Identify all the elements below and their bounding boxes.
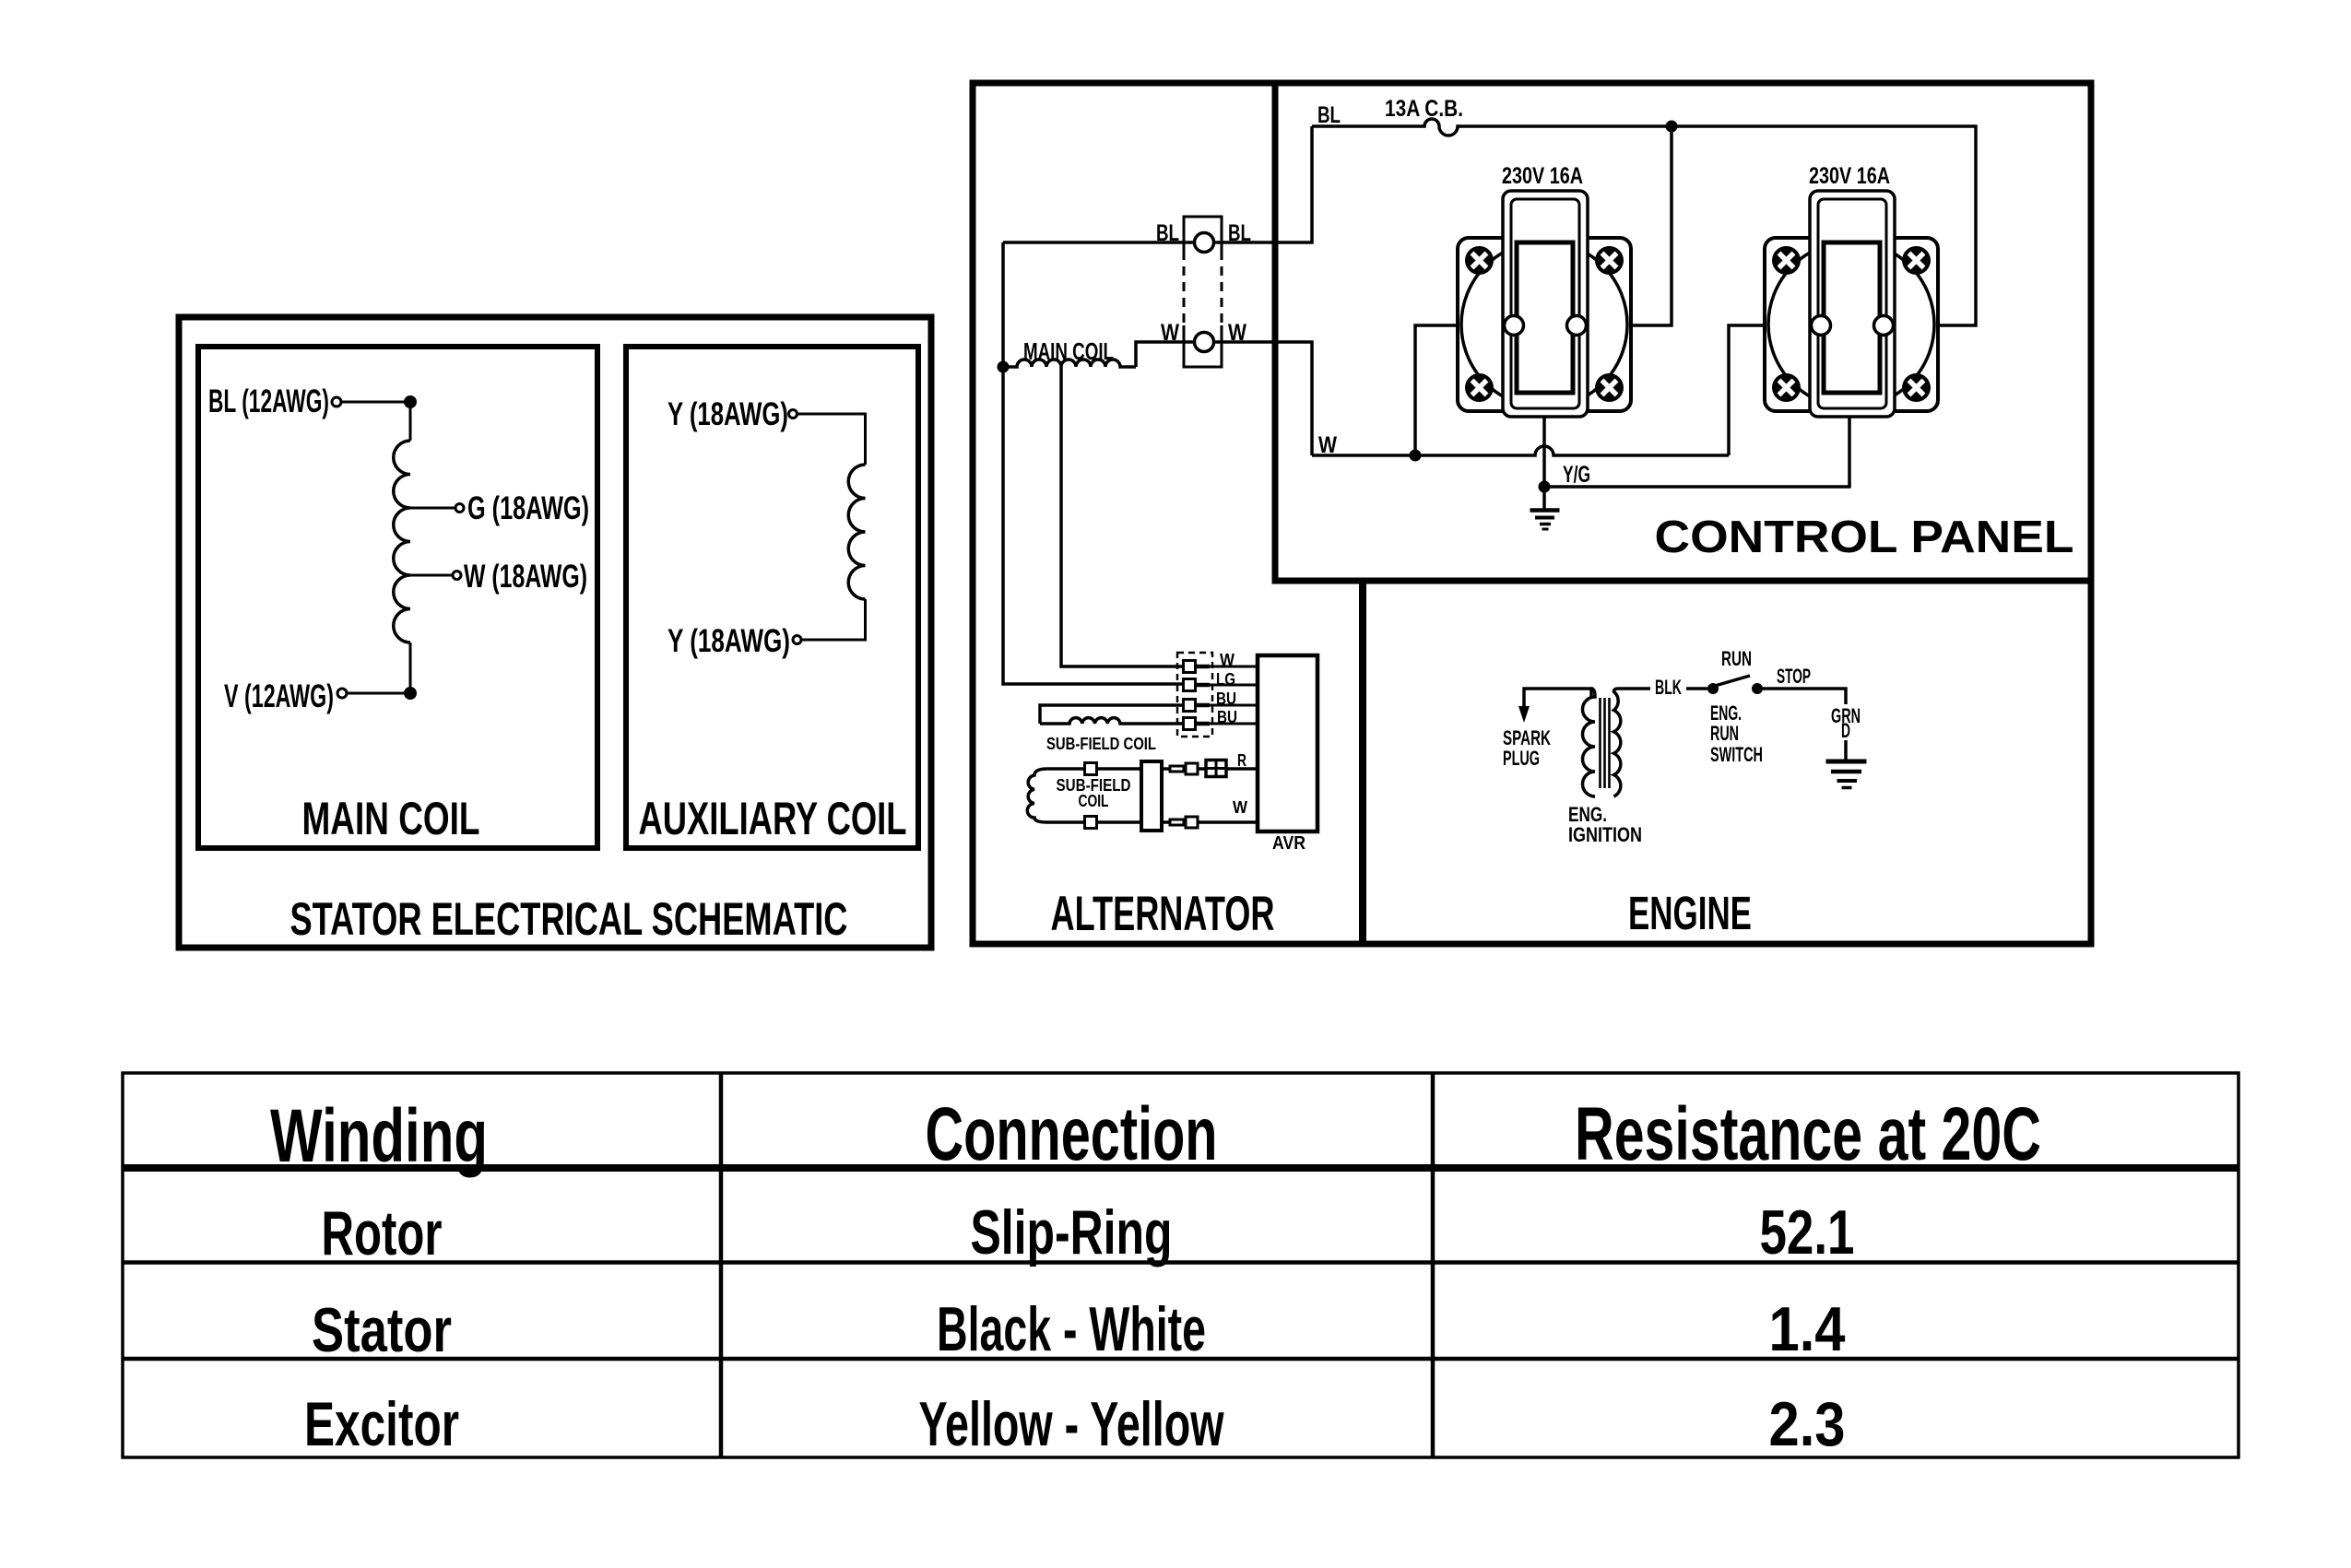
svg-text:Winding: Winding xyxy=(270,1094,488,1178)
wire main coil junction up to BL xyxy=(1001,242,1005,367)
wire junction down to coil xyxy=(409,402,412,441)
svg-text:COIL: COIL xyxy=(1079,792,1109,810)
svg-text:13A C.B.: 13A C.B. xyxy=(1385,96,1463,122)
svg-text:Resistance at 20C: Resistance at 20C xyxy=(1575,1092,2041,1176)
svg-text:IGNITION: IGNITION xyxy=(1568,823,1642,846)
stator electrical schematic outer box xyxy=(179,317,931,948)
inductor auxiliary coil winding xyxy=(848,465,865,599)
wire coil bottom to V junction xyxy=(409,643,412,693)
wire plug to fuse xyxy=(1198,767,1206,771)
terminal block TB1 xyxy=(1184,217,1222,367)
connector pin 2 xyxy=(1184,679,1211,691)
wire fuse to AVR xyxy=(1226,767,1258,771)
wire STOP run to ground corner xyxy=(1757,689,1846,704)
svg-text:BU: BU xyxy=(1216,690,1236,708)
svg-text:D: D xyxy=(1841,719,1850,742)
sub-field coil 2 body with scalloped edge xyxy=(1027,769,1141,822)
svg-text:BU: BU xyxy=(1217,708,1237,726)
svg-text:Connection: Connection xyxy=(926,1092,1218,1176)
plug bottom square xyxy=(1186,817,1198,828)
wire transformer to BLK xyxy=(1618,687,1650,690)
svg-text:BL (12AWG): BL (12AWG) xyxy=(208,383,329,419)
svg-text:MAIN COIL: MAIN COIL xyxy=(302,793,480,844)
wire Y top to aux coil xyxy=(797,414,866,465)
junction node BL top xyxy=(1666,121,1678,133)
generator outer box (alternator+engine+control panel) xyxy=(973,83,2091,944)
svg-text:V (12AWG): V (12AWG) xyxy=(224,678,334,714)
table header underline thick xyxy=(123,1164,2239,1172)
wire BL terminal to control panel xyxy=(1214,126,1312,242)
svg-text:W: W xyxy=(1161,320,1179,346)
terminal square bottom of coil 2 xyxy=(1085,817,1097,829)
plug top stub xyxy=(1170,766,1184,772)
connector pin 1 xyxy=(1184,661,1211,673)
svg-text:RUN: RUN xyxy=(1710,722,1739,745)
svg-text:W: W xyxy=(1233,798,1247,817)
svg-text:PLUG: PLUG xyxy=(1503,747,1540,770)
svg-text:W (18AWG): W (18AWG) xyxy=(464,559,587,595)
connector pin 4 xyxy=(1184,718,1211,730)
svg-text:2.3: 2.3 xyxy=(1769,1389,1846,1459)
wire BL to junction xyxy=(341,401,410,404)
svg-text:Black - White: Black - White xyxy=(937,1294,1206,1364)
wire BL from main coil to terminal xyxy=(1003,241,1194,244)
svg-text:Rotor: Rotor xyxy=(322,1198,443,1268)
svg-text:52.1: 52.1 xyxy=(1760,1197,1855,1267)
receptacle socket 230V 16A no.1 xyxy=(1458,191,1631,417)
wire main coil tap down to connector pin W xyxy=(1061,367,1183,666)
ground symbol control panel xyxy=(1530,508,1560,513)
wire BL top run with circuit breaker xyxy=(1312,119,1666,136)
wire plug bottom to AVR xyxy=(1198,820,1258,824)
wire aux coil to Y bottom xyxy=(801,599,866,640)
svg-text:BLK: BLK xyxy=(1655,676,1682,699)
junction node main coil left xyxy=(998,361,1010,373)
main coil box xyxy=(198,347,597,848)
svg-text:BL: BL xyxy=(1156,220,1179,246)
transformer primary winding xyxy=(1583,689,1596,796)
svg-text:LG: LG xyxy=(1216,670,1235,689)
fuse box with cross xyxy=(1206,760,1226,777)
svg-text:W: W xyxy=(1220,651,1235,669)
junction node W line xyxy=(1410,450,1422,462)
vertical connector rectangle xyxy=(1141,761,1162,831)
wire pin1 to AVR xyxy=(1210,666,1258,668)
wire W line bottom with hop over stem xyxy=(1312,446,1729,455)
junction node Y/G xyxy=(1539,481,1551,493)
wire tap W xyxy=(410,574,453,577)
inductor alternator main coil xyxy=(1003,360,1136,367)
svg-text:BL: BL xyxy=(1317,102,1341,128)
connector block dashed xyxy=(1177,653,1212,737)
wire Y/G to ground xyxy=(1542,487,1546,509)
svg-text:CONTROL PANEL: CONTROL PANEL xyxy=(1655,513,2074,562)
wire coil2 bottom to plug xyxy=(1162,820,1170,824)
svg-text:SWITCH: SWITCH xyxy=(1710,743,1763,766)
svg-text:ALTERNATOR: ALTERNATOR xyxy=(1051,887,1275,941)
terminal Y bottom open circle xyxy=(793,636,801,644)
wire receptacle 1 stem down xyxy=(1542,417,1546,487)
wire pin2 to AVR xyxy=(1210,684,1258,687)
switch arm xyxy=(1715,676,1750,686)
table column line 1 xyxy=(719,1073,724,1457)
svg-text:AUXILIARY COIL: AUXILIARY COIL xyxy=(639,793,907,844)
inductor main coil winding xyxy=(394,441,410,643)
wire Y/G to receptacle 2 stem xyxy=(1544,417,1849,487)
terminal Y top open circle xyxy=(789,410,797,419)
ground symbol engine xyxy=(1826,760,1867,764)
svg-text:230V 16A: 230V 16A xyxy=(1809,163,1890,189)
plug bottom stub xyxy=(1170,819,1184,825)
table outer border xyxy=(123,1073,2239,1457)
wire V junction to terminal xyxy=(347,692,410,695)
wire pin3 to AVR xyxy=(1210,704,1258,707)
svg-text:AVR: AVR xyxy=(1272,833,1305,854)
divider alternator/engine xyxy=(1359,581,1366,944)
wire BL junction to receptacle 1 right pin xyxy=(1587,126,1672,325)
svg-text:Yellow - Yellow: Yellow - Yellow xyxy=(919,1389,1225,1459)
wire main coil left end down to connector pin LG xyxy=(1003,367,1183,684)
connector pin 3 xyxy=(1184,700,1211,712)
svg-text:1.4: 1.4 xyxy=(1769,1294,1846,1364)
svg-text:Y/G: Y/G xyxy=(1563,462,1590,488)
wire tap G xyxy=(410,507,455,510)
inductor sub-field coil 1 xyxy=(1040,718,1183,724)
svg-text:W: W xyxy=(1228,320,1246,346)
svg-text:W: W xyxy=(1318,432,1337,458)
svg-text:G (18AWG): G (18AWG) xyxy=(467,490,589,526)
table column line 2 xyxy=(1431,1073,1435,1457)
junction node BL xyxy=(404,395,417,408)
control panel box xyxy=(1275,83,2091,581)
table row line 2 xyxy=(123,1357,2239,1362)
svg-text:Excitor: Excitor xyxy=(304,1389,459,1459)
svg-text:SUB-FIELD COIL: SUB-FIELD COIL xyxy=(1046,735,1156,753)
plug top square xyxy=(1186,763,1198,774)
terminal square top of coil 2 xyxy=(1085,763,1097,775)
receptacle socket 230V 16A no.2 xyxy=(1765,191,1938,417)
junction node V xyxy=(404,687,417,700)
wire GRND to ground symbol xyxy=(1844,740,1848,760)
terminal BL open circle xyxy=(332,397,341,407)
transformer core lines xyxy=(1601,698,1610,788)
svg-text:Y (18AWG): Y (18AWG) xyxy=(667,623,790,659)
wire coil2 top to plug xyxy=(1162,767,1170,771)
wire pin4 to AVR xyxy=(1210,723,1258,725)
svg-text:Y (18AWG): Y (18AWG) xyxy=(667,396,788,432)
wire spark plug lead xyxy=(1524,689,1591,708)
auxiliary coil box xyxy=(626,347,918,848)
terminal circle W xyxy=(1195,333,1214,352)
wire BL top to receptacle 2 right pin xyxy=(1672,126,1976,325)
wire sub-field coil 1 upper to pin BU xyxy=(1040,705,1183,724)
wire W from main coil to terminal xyxy=(1136,342,1194,367)
svg-text:Slip-Ring: Slip-Ring xyxy=(971,1197,1173,1267)
svg-text:STOP: STOP xyxy=(1777,665,1811,688)
svg-text:ENGINE: ENGINE xyxy=(1628,887,1752,939)
wire W line to receptacle 2 left pin xyxy=(1729,325,1812,455)
wire W terminal to control panel xyxy=(1214,342,1312,455)
terminal W open circle xyxy=(453,572,461,580)
svg-text:BL: BL xyxy=(1228,220,1251,246)
table row line 1 xyxy=(123,1260,2239,1265)
svg-text:Stator: Stator xyxy=(312,1295,452,1365)
svg-text:RUN: RUN xyxy=(1721,647,1752,670)
svg-text:R: R xyxy=(1237,751,1246,770)
switch node left xyxy=(1707,683,1719,694)
transformer secondary winding xyxy=(1614,689,1621,796)
terminal V open circle xyxy=(337,689,347,698)
wire W junction up to receptacle 1 left pin xyxy=(1415,325,1505,455)
switch node right xyxy=(1752,683,1763,694)
svg-text:STATOR ELECTRICAL SCHEMATIC: STATOR ELECTRICAL SCHEMATIC xyxy=(290,893,848,945)
svg-text:230V 16A: 230V 16A xyxy=(1502,163,1583,189)
terminal G open circle xyxy=(455,504,464,513)
AVR box xyxy=(1258,655,1317,831)
spark plug arrow xyxy=(1518,706,1530,723)
wire BLK to switch xyxy=(1686,687,1707,690)
terminal circle BL xyxy=(1195,233,1214,253)
